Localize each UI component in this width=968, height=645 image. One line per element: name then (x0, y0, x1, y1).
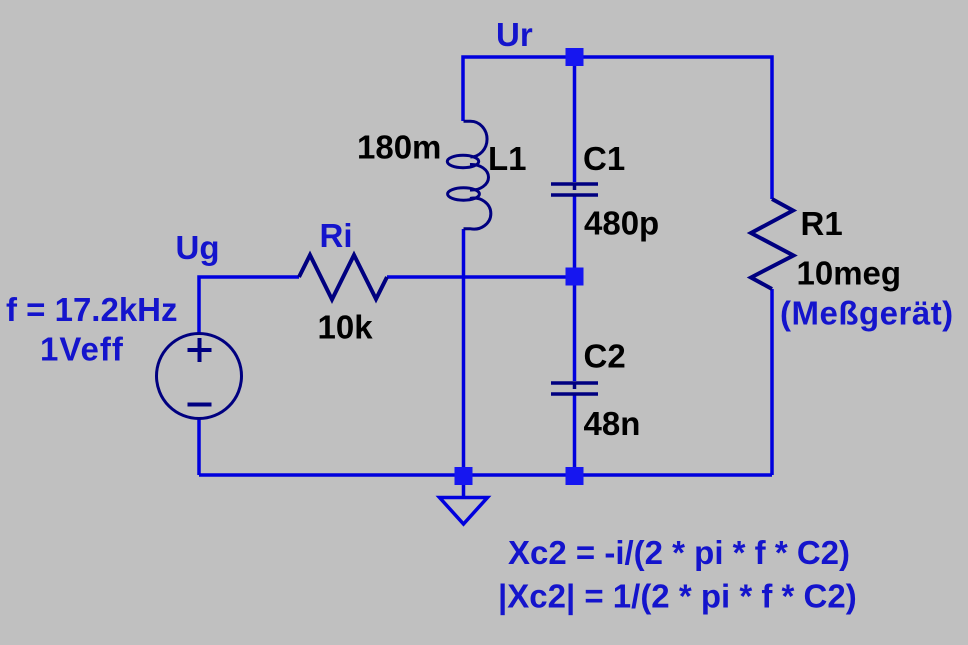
node junction bottom left (455, 467, 473, 485)
svg-text:C2: C2 (584, 338, 626, 375)
wire bottom horizontal ground net (199, 473, 772, 477)
svg-text:10k: 10k (318, 309, 374, 346)
wire ground stub (462, 475, 466, 497)
svg-text:Ri: Ri (320, 217, 353, 254)
wire L1 bottom vertical (462, 229, 466, 475)
svg-text:f = 17.2kHz: f = 17.2kHz (6, 291, 178, 328)
resistor R1 zigzag (751, 199, 794, 289)
resistor Ri zigzag (299, 255, 387, 300)
wire C1 branch upper (573, 57, 577, 182)
voltage source V1 circle (157, 334, 242, 419)
wire Ug to Ri horizontal (199, 277, 299, 334)
wire top horizontal Ur net (463, 57, 772, 199)
svg-text:(Meßgerät): (Meßgerät) (780, 295, 954, 332)
svg-text:480p: 480p (584, 205, 659, 242)
capacitor C2 top stub (573, 382, 577, 389)
inductor L1 coil arc 1 (464, 121, 488, 157)
svg-text:C1: C1 (583, 140, 625, 177)
svg-text:R1: R1 (801, 205, 843, 242)
wire R1 bottom vertical (770, 289, 774, 475)
svg-text:|Xc2| = 1/(2 * pi * f * C2): |Xc2| = 1/(2 * pi * f * C2) (498, 578, 857, 615)
wire C2 bottom (573, 395, 577, 475)
wire source bottom (197, 418, 201, 475)
svg-text:10meg: 10meg (797, 255, 902, 292)
svg-text:1Veff: 1Veff (40, 331, 124, 368)
node junction top Ur (566, 48, 584, 66)
svg-text:Xc2 = -i/(2 * pi * f * C2): Xc2 = -i/(2 * pi * f * C2) (508, 534, 850, 571)
inductor L1 loop ellipse 2 (448, 188, 480, 200)
voltage source plus sign (188, 338, 212, 362)
svg-text:L1: L1 (488, 140, 527, 177)
inductor L1 coil arc 3 (464, 198, 491, 229)
svg-text:180m: 180m (357, 129, 441, 166)
node junction bottom right (566, 467, 584, 485)
svg-text:Ur: Ur (496, 16, 533, 53)
wire C1 to C2 middle (573, 196, 577, 381)
inductor L1 coil arc 2 (470, 164, 489, 190)
capacitor C1 plates (551, 184, 598, 195)
inductor L1 loop ellipse 1 (447, 155, 478, 167)
svg-text:Ug: Ug (176, 229, 220, 266)
svg-text:48n: 48n (584, 405, 641, 442)
node junction middle (566, 268, 584, 286)
capacitor C1 top stub (573, 183, 577, 190)
wire Ri to middle junction (387, 275, 574, 279)
capacitor C2 plates (551, 383, 598, 394)
voltage source minus sign (188, 403, 212, 407)
ground (440, 498, 488, 525)
